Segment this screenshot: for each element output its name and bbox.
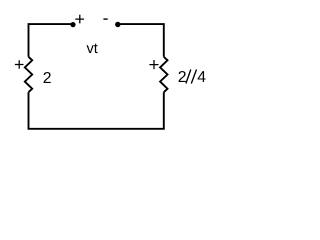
label: // of R2 value 2//4 <box>186 70 197 84</box>
svg-text:vt: vt <box>87 41 98 57</box>
label: + polarity of R2 <box>149 60 158 69</box>
node dot: - terminal of vt <box>115 22 120 27</box>
wire: right top segment (- terminal to right corner) <box>118 24 164 57</box>
wire: bottom loop (left resistor to right resistor) <box>29 92 164 129</box>
svg-text:2: 2 <box>43 70 52 87</box>
resistor R1 (left, 2 ohm) <box>25 57 32 92</box>
svg-text:2: 2 <box>178 69 187 86</box>
resistor R2 (right, 2//4 ohm) <box>160 57 167 92</box>
wire: left top segment (left corner to + terminal) <box>29 24 74 57</box>
label: + polarity of R1 <box>15 60 24 69</box>
label: + polarity of vt <box>75 15 84 24</box>
label: - polarity of vt <box>103 18 107 20</box>
node dot: + terminal of vt <box>70 22 75 27</box>
svg-text:4: 4 <box>197 69 206 86</box>
